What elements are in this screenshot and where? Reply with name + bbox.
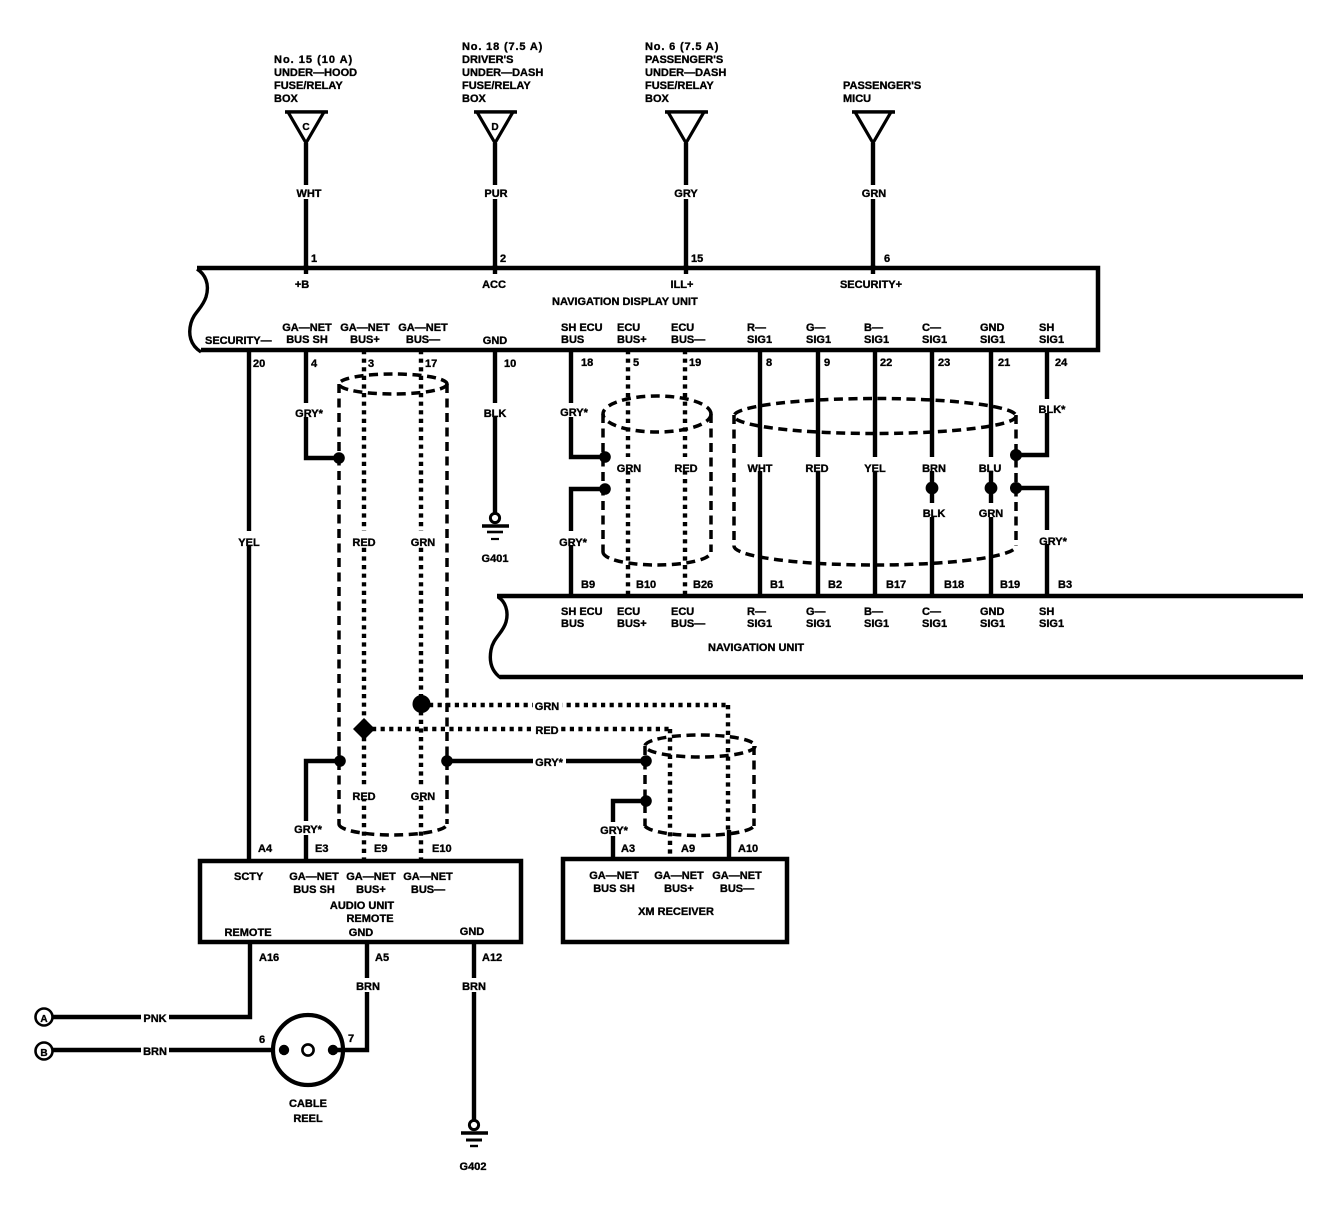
junction on shield (pin 4 drain) [333, 452, 345, 464]
svg-text:B1: B1 [770, 579, 784, 591]
wire BRN A12 to ground G402 [460, 943, 489, 1121]
svg-text:BRN: BRN [462, 981, 486, 993]
svg-text:GRY*: GRY* [295, 408, 323, 420]
svg-text:BRN: BRN [143, 1046, 167, 1058]
svg-text:B18: B18 [944, 579, 964, 591]
svg-text:18: 18 [581, 357, 593, 369]
wire RED G-SIG1 pin 9 to B2 [803, 350, 831, 598]
svg-text:24: 24 [1055, 357, 1068, 369]
SEC_BOXES [200, 859, 787, 942]
node R-SIG1 [747, 322, 772, 346]
svg-text:REEL: REEL [293, 1113, 323, 1125]
node ACC pin 2 stub [482, 265, 506, 291]
ground G402 [460, 1120, 488, 1173]
svg-text:UNDER—DASH: UNDER—DASH [462, 67, 543, 79]
connector C triangle [285, 112, 328, 143]
splice on wire 21 [985, 482, 998, 495]
svg-text:ACC: ACC [482, 279, 506, 291]
junction shield drain (left shield right edge) [441, 755, 453, 767]
svg-text:FUSE/RELAY: FUSE/RELAY [462, 80, 531, 92]
svg-text:SH ECU: SH ECU [561, 322, 603, 334]
svg-text:ECU: ECU [671, 322, 694, 334]
svg-text:B: B [40, 1048, 47, 1059]
connector A [36, 1009, 53, 1026]
svg-text:SIG1: SIG1 [980, 334, 1005, 346]
SEC_BUS [258, 695, 758, 860]
junction XM shield drain to A3 [640, 795, 652, 807]
connector triangle (passenger fuse) [665, 112, 708, 143]
XM bus shield cylinder [645, 735, 755, 836]
svg-text:GND: GND [349, 927, 374, 939]
svg-text:G402: G402 [460, 1161, 487, 1173]
svg-text:C: C [302, 122, 309, 133]
svg-text:E10: E10 [432, 843, 452, 855]
junction on SIG shield (B3 drain) [1010, 482, 1022, 494]
svg-text:B—: B— [864, 322, 883, 334]
node GA-NET BUS- [398, 322, 448, 346]
svg-text:ECU: ECU [617, 322, 640, 334]
wire GRY* pin 4 to shield [294, 350, 338, 458]
node G-SIG1 (nav unit) [806, 606, 831, 630]
svg-text:WHT: WHT [296, 188, 321, 200]
node C-SIG1 [922, 322, 947, 346]
node SH SIG1 (nav unit) [1039, 606, 1064, 630]
svg-text:SIG1: SIG1 [922, 618, 947, 630]
svg-text:BUS SH: BUS SH [286, 334, 328, 346]
svg-text:3: 3 [368, 358, 374, 370]
svg-text:GA—NET: GA—NET [346, 871, 396, 883]
node ECU BUS- (nav unit) [671, 606, 705, 630]
SEC_NAVU [490, 596, 1303, 678]
svg-text:FUSE/RELAY: FUSE/RELAY [645, 80, 714, 92]
svg-text:GRN: GRN [411, 791, 436, 803]
svg-text:B—: B— [864, 606, 883, 618]
splice on wire 23 [926, 482, 939, 495]
svg-text:SIG1: SIG1 [864, 618, 889, 630]
svg-text:GRN: GRN [862, 188, 887, 200]
svg-text:No. 6 (7.5 A): No. 6 (7.5 A) [645, 41, 719, 53]
svg-text:REMOTE: REMOTE [224, 927, 271, 939]
svg-text:7: 7 [348, 1033, 354, 1045]
svg-text:WHT: WHT [747, 463, 772, 475]
svg-text:BUS+: BUS+ [664, 883, 694, 895]
wire PUR from fuse D to pin 2 [482, 143, 509, 268]
svg-text:BLK: BLK [923, 508, 946, 520]
svg-text:GA—NET: GA—NET [289, 871, 339, 883]
SEC_BOTTOM [36, 943, 503, 1173]
ECU bus shield cylinder [603, 396, 711, 565]
svg-text:A9: A9 [681, 843, 695, 855]
svg-text:REMOTE: REMOTE [346, 913, 393, 925]
svg-text:PASSENGER'S: PASSENGER'S [843, 80, 921, 92]
wire GRY* XM shield to A3 [598, 801, 646, 859]
svg-text:6: 6 [259, 1034, 265, 1046]
svg-text:23: 23 [938, 357, 950, 369]
svg-text:A10: A10 [738, 843, 758, 855]
svg-text:BRN: BRN [356, 981, 380, 993]
node GA-NET BUS+ (XM) [654, 870, 704, 895]
node GA-NET BUS+ (audio) [346, 871, 396, 896]
junction on ECU shield (B9 drain) [599, 483, 611, 495]
svg-text:BOX: BOX [462, 93, 487, 105]
wire GRN GA-NET BUS- pin 17 to E10 [408, 350, 437, 860]
svg-text:UNDER—DASH: UNDER—DASH [645, 67, 726, 79]
svg-text:BUS SH: BUS SH [593, 883, 635, 895]
svg-text:BUS+: BUS+ [356, 884, 386, 896]
label BLK below splice [920, 503, 947, 520]
svg-text:BUS+: BUS+ [617, 334, 647, 346]
wire GRN bus to XM A10 [429, 699, 729, 859]
cable reel label [289, 1098, 327, 1125]
junction GA-NET BUS- tap [413, 695, 431, 713]
wire BRN/BLK C-SIG1 pin 23 to B18 [919, 350, 949, 598]
svg-text:ILL+: ILL+ [671, 279, 694, 291]
node B-SIG1 [864, 322, 889, 346]
svg-text:A12: A12 [482, 952, 502, 964]
node GA-NET BUS+ [340, 322, 390, 346]
junction on ECU shield (pin 18 drain) [599, 451, 611, 463]
wire YEL SECURITY- pin 20 to audio unit A4 [237, 350, 262, 860]
node R-SIG1 (nav unit) [747, 606, 772, 630]
node GA-NET BUS- (XM) [712, 870, 762, 895]
svg-text:G—: G— [806, 322, 826, 334]
svg-text:ECU: ECU [617, 606, 640, 618]
wire GRY* pin 18 to ECU shield [560, 350, 604, 457]
svg-text:RED: RED [805, 463, 828, 475]
wire GRY to pin 15 [672, 143, 700, 268]
svg-text:B10: B10 [636, 579, 656, 591]
svg-text:GRN: GRN [979, 508, 1004, 520]
wire RED bus to XM A9 [372, 722, 670, 859]
wire PNK A16 to connector A [51, 943, 250, 1025]
svg-text:ECU: ECU [671, 606, 694, 618]
svg-text:NAVIGATION UNIT: NAVIGATION UNIT [708, 642, 804, 654]
svg-text:A5: A5 [375, 952, 389, 964]
svg-text:PNK: PNK [143, 1013, 166, 1025]
svg-text:+B: +B [295, 279, 309, 291]
svg-text:RED: RED [535, 725, 558, 737]
svg-text:BLK*: BLK* [1039, 404, 1067, 416]
connector triangle (MICU) [852, 112, 895, 143]
svg-text:GND: GND [980, 606, 1005, 618]
wire GRY* SIG shield to B3 [1016, 488, 1069, 598]
svg-text:SIG1: SIG1 [980, 618, 1005, 630]
svg-text:BLU: BLU [979, 463, 1002, 475]
svg-text:4: 4 [311, 358, 318, 370]
fuse box D label (No. 18 7.5A driver's under-dash fuse/relay box) [462, 41, 543, 105]
audio unit box [200, 861, 521, 942]
svg-text:SIG1: SIG1 [747, 334, 772, 346]
svg-text:6: 6 [884, 253, 890, 265]
svg-text:SIG1: SIG1 [806, 618, 831, 630]
svg-text:BOX: BOX [274, 93, 299, 105]
wire BLK* pin 24 to SIG shield [1018, 350, 1068, 455]
svg-text:YEL: YEL [864, 463, 886, 475]
svg-text:SIG1: SIG1 [747, 618, 772, 630]
svg-text:PUR: PUR [484, 188, 507, 200]
svg-text:SIG1: SIG1 [1039, 334, 1064, 346]
svg-text:17: 17 [425, 358, 437, 370]
svg-text:GA—NET: GA—NET [712, 870, 762, 882]
svg-text:SECURITY+: SECURITY+ [840, 279, 902, 291]
node GA-NET BUS- (audio) [403, 871, 453, 896]
node GND SIG1 [980, 322, 1005, 346]
svg-text:DRIVER'S: DRIVER'S [462, 54, 514, 66]
node C-SIG1 (nav unit) [922, 606, 947, 630]
svg-text:SCTY: SCTY [234, 871, 264, 883]
svg-text:A3: A3 [621, 843, 635, 855]
svg-text:22: 22 [880, 357, 892, 369]
SEC_MID [237, 350, 1072, 860]
wire GRY* shield-to-shield [447, 754, 646, 769]
wire BRN cable reel pin 7 to A5 [333, 943, 382, 1050]
svg-text:SH: SH [1039, 322, 1054, 334]
svg-text:BUS—: BUS— [720, 883, 754, 895]
svg-text:2: 2 [500, 253, 506, 265]
wire GRY* shield to audio E3 [292, 761, 340, 860]
node +B pin 1 stub [295, 265, 309, 291]
svg-text:GRN: GRN [535, 701, 560, 713]
navigation display unit box [190, 268, 1098, 352]
svg-text:BUS SH: BUS SH [293, 884, 335, 896]
svg-text:B26: B26 [693, 579, 713, 591]
svg-text:C—: C— [922, 606, 941, 618]
node G-SIG1 [806, 322, 831, 346]
junction shield drain to E3 [334, 755, 346, 767]
ground G401 [482, 513, 509, 565]
navigation unit box [490, 596, 1303, 678]
svg-text:A4: A4 [258, 843, 273, 855]
node SECURITY+ pin 6 stub [840, 265, 902, 291]
svg-text:E3: E3 [315, 843, 328, 855]
svg-text:GA—NET: GA—NET [403, 871, 453, 883]
svg-text:BLK: BLK [484, 408, 507, 420]
svg-text:G401: G401 [482, 553, 509, 565]
wire BRN connector B to cable reel pin 6 [52, 1043, 284, 1058]
wire RED GA-NET BUS+ pin 3 to E9 [350, 350, 378, 860]
svg-text:BUS—: BUS— [406, 334, 440, 346]
node GA-NET BUS SH (XM) [589, 870, 639, 895]
svg-text:B17: B17 [886, 579, 906, 591]
node GA-NET BUS SH (audio) [289, 871, 339, 896]
svg-text:A16: A16 [259, 952, 279, 964]
label GRN below splice [977, 503, 1006, 520]
svg-text:R—: R— [747, 606, 766, 618]
svg-text:SECURITY—: SECURITY— [205, 335, 272, 347]
wire RED ECU BUS- pin 19 to B26 [672, 350, 700, 598]
svg-text:BUS—: BUS— [671, 618, 705, 630]
svg-text:RED: RED [352, 791, 375, 803]
svg-text:R—: R— [747, 322, 766, 334]
shielded twisted pair (GA-NET bus) cylinder [339, 374, 447, 835]
svg-text:GRN: GRN [617, 463, 642, 475]
passenger's MICU label [843, 80, 921, 105]
svg-text:GND: GND [980, 322, 1005, 334]
svg-text:AUDIO UNIT: AUDIO UNIT [330, 900, 394, 912]
svg-text:5: 5 [633, 357, 639, 369]
junction shield drain (XM shield left edge) [640, 755, 652, 767]
svg-text:B3: B3 [1058, 579, 1072, 591]
svg-text:E9: E9 [374, 843, 387, 855]
svg-text:SIG1: SIG1 [806, 334, 831, 346]
svg-text:GRN: GRN [411, 537, 436, 549]
svg-text:GA—NET: GA—NET [340, 322, 390, 334]
svg-text:GRY: GRY [674, 188, 698, 200]
svg-text:GA—NET: GA—NET [589, 870, 639, 882]
svg-text:B9: B9 [581, 579, 595, 591]
svg-text:15: 15 [691, 253, 703, 265]
svg-text:B2: B2 [828, 579, 842, 591]
svg-text:CABLE: CABLE [289, 1098, 327, 1110]
wire GRN ECU BUS+ pin 5 to B10 [615, 350, 644, 598]
svg-text:GRY*: GRY* [535, 757, 563, 769]
svg-text:GRY*: GRY* [1039, 536, 1067, 548]
wire BLU/GRN GND SIG1 pin 21 to B19 [977, 350, 1004, 598]
svg-text:GND: GND [460, 926, 485, 938]
svg-text:XM RECEIVER: XM RECEIVER [638, 906, 714, 918]
SIG1 bus shield cylinder [734, 399, 1016, 566]
svg-text:GND: GND [483, 335, 508, 347]
svg-text:SH: SH [1039, 606, 1054, 618]
svg-text:GA—NET: GA—NET [282, 322, 332, 334]
node SH ECU BUS [561, 322, 603, 346]
svg-text:19: 19 [689, 357, 701, 369]
svg-text:BUS: BUS [561, 334, 584, 346]
connector B [36, 1043, 53, 1060]
svg-text:SIG1: SIG1 [922, 334, 947, 346]
fuse box C label (No. 15 10A under-hood fuse/relay box) [274, 54, 357, 105]
svg-text:SH ECU: SH ECU [561, 606, 603, 618]
svg-text:BOX: BOX [645, 93, 670, 105]
svg-text:BRN: BRN [922, 463, 946, 475]
connector D triangle [474, 112, 517, 143]
svg-text:21: 21 [998, 357, 1010, 369]
fuse box label (No. 6 7.5A passenger's under-dash fuse/relay box) [645, 41, 726, 105]
svg-text:10: 10 [504, 358, 516, 370]
svg-text:GA—NET: GA—NET [654, 870, 704, 882]
svg-text:GA—NET: GA—NET [398, 322, 448, 334]
svg-text:BUS—: BUS— [411, 884, 445, 896]
cable reel [273, 1015, 343, 1085]
svg-text:UNDER—HOOD: UNDER—HOOD [274, 67, 357, 79]
junction on SIG shield (pin 24 drain) [1010, 449, 1022, 461]
svg-text:GRY*: GRY* [559, 537, 587, 549]
wire GRN to pin 6 [859, 143, 888, 268]
junction GA-NET BUS+ tap [353, 718, 375, 740]
node B-SIG1 (nav unit) [864, 606, 889, 630]
svg-text:8: 8 [766, 357, 772, 369]
node GND SIG1 (nav unit) [980, 606, 1005, 630]
svg-text:No. 15 (10 A): No. 15 (10 A) [274, 54, 353, 66]
wire BLK pin 10 to ground G401 [482, 350, 509, 514]
node SH SIG1 [1039, 322, 1064, 346]
node REMOTE GND (audio A5) [346, 913, 393, 939]
SEC_TOP [274, 41, 921, 268]
SEC_NDU [190, 265, 1098, 370]
svg-text:PASSENGER'S: PASSENGER'S [645, 54, 723, 66]
svg-text:GRY*: GRY* [294, 824, 322, 836]
wire WHT R-SIG1 pin 8 to B1 [745, 350, 775, 598]
svg-text:NAVIGATION DISPLAY UNIT: NAVIGATION DISPLAY UNIT [552, 296, 698, 308]
svg-text:B19: B19 [1000, 579, 1020, 591]
svg-text:RED: RED [674, 463, 697, 475]
svg-text:1: 1 [311, 253, 317, 265]
node ECU BUS+ (nav unit) [617, 606, 647, 630]
wire GRY* ECU shield to B9 [558, 489, 605, 598]
svg-text:C—: C— [922, 322, 941, 334]
svg-text:20: 20 [253, 358, 265, 370]
XM receiver box [563, 859, 787, 942]
node ECU BUS+ [617, 322, 647, 346]
svg-text:FUSE/RELAY: FUSE/RELAY [274, 80, 343, 92]
node SH ECU BUS (nav unit) [561, 606, 603, 630]
svg-text:BUS—: BUS— [671, 334, 705, 346]
svg-text:BUS: BUS [561, 618, 584, 630]
svg-text:D: D [491, 122, 498, 133]
svg-text:GRY*: GRY* [600, 825, 628, 837]
svg-text:GRY*: GRY* [560, 407, 588, 419]
node GA-NET BUS SH [282, 322, 332, 346]
svg-text:SIG1: SIG1 [1039, 618, 1064, 630]
svg-text:YEL: YEL [238, 537, 260, 549]
svg-text:G—: G— [806, 606, 826, 618]
node ILL+ pin 15 stub [671, 265, 694, 291]
wire WHT from fuse C to pin 1 [292, 143, 322, 268]
svg-text:SIG1: SIG1 [864, 334, 889, 346]
wire YEL B-SIG1 pin 22 to B17 [862, 350, 888, 598]
svg-text:A: A [40, 1014, 47, 1025]
svg-text:No. 18 (7.5 A): No. 18 (7.5 A) [462, 41, 543, 53]
svg-text:9: 9 [824, 357, 830, 369]
svg-text:MICU: MICU [843, 93, 871, 105]
svg-text:BUS+: BUS+ [350, 334, 380, 346]
svg-text:RED: RED [352, 537, 375, 549]
node ECU BUS- [671, 322, 705, 346]
svg-text:BUS+: BUS+ [617, 618, 647, 630]
